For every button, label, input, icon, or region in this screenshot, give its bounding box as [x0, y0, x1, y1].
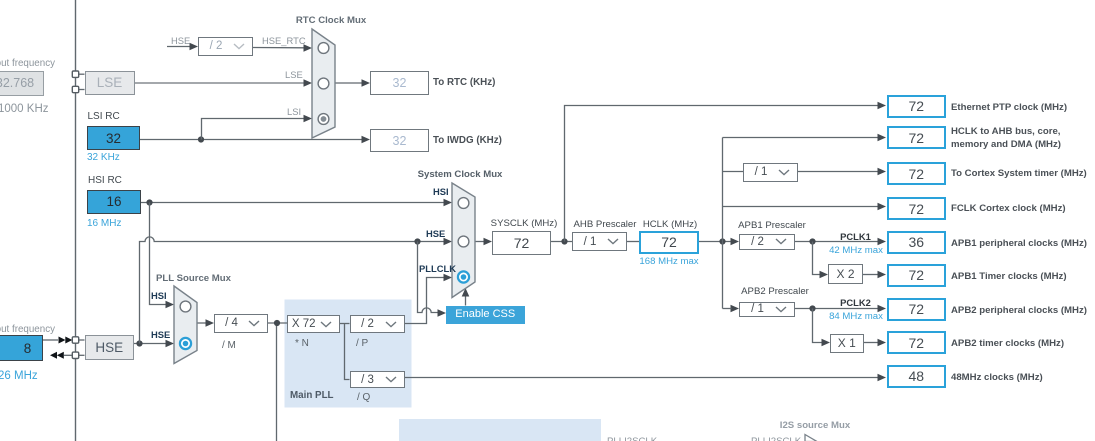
wire HSE drop to Enable CSS (hops over PLLCLK riser)	[418, 242, 447, 317]
label APB1 Timer clocks (MHz)	[951, 270, 1067, 284]
oscillator HSI RC 16	[87, 190, 141, 215]
dropdown PLL P divider /2	[350, 315, 405, 333]
wire LSI branch to RTC mux	[202, 115, 313, 140]
wire LSE to RTC mux	[134, 79, 312, 87]
panel Main PLL background	[285, 300, 412, 408]
label 16 MHz	[87, 217, 121, 231]
label input frequency (LSE, clipped)	[0, 57, 55, 71]
label Main PLL title	[290, 389, 334, 403]
dropdown /M divider /4	[214, 314, 268, 333]
label HCLK to AHB bus, core, memory and DMA (MHz)	[951, 125, 1061, 152]
output box FCLK Cortex 72	[887, 197, 947, 220]
dropdown /2 RTC HSE divider	[198, 37, 253, 56]
wire trunk to APB2 prescaler	[731, 305, 740, 313]
output box APB2 peripheral 72	[887, 298, 947, 322]
label PCLK2	[833, 296, 878, 310]
wire N multiplier to /P and /Q dividers	[340, 324, 350, 380]
wire APB1 branch to X2 multiplier	[813, 242, 829, 279]
output box HCLK to AHB 72	[887, 126, 947, 149]
wire LSI RC to IWDG box	[140, 136, 370, 144]
button Enable CSS	[446, 306, 525, 324]
label SYSCLK (MHz)	[489, 217, 559, 231]
wire HSE_RTC from /2 divider to RTC mux	[253, 44, 312, 52]
wire Enable CSS up-arrow into mux	[462, 288, 470, 306]
wire AHB prescaler to HCLK box	[627, 241, 639, 243]
label HSE (PLL mux input)	[151, 328, 170, 342]
dropdown PLL Q divider /3	[350, 371, 405, 388]
wire HSE stub to /2 RTC divider	[167, 43, 198, 51]
output box To IWDG 32	[370, 129, 429, 152]
wire RTC mux output to To-RTC box	[335, 79, 370, 87]
wire HCLK box to APB1 prescaler	[699, 238, 739, 246]
label HCLK (MHz)	[635, 218, 705, 232]
wire APB2 prescaler to PCLK2 output	[795, 305, 886, 313]
label 26 MHz	[0, 370, 38, 384]
wire HSE riser to System Clock Mux (hops over HSI riser)	[140, 237, 453, 344]
wire SYSCLK box to AHB prescaler	[551, 238, 572, 244]
wire /M divider to PLL N multiplier	[268, 320, 287, 326]
label PCLK1	[833, 230, 878, 244]
input box HSE frequency 8	[0, 335, 43, 361]
wire APB2 branch to X1 multiplier	[813, 309, 831, 347]
input box LSE frequency 32.768	[0, 71, 44, 96]
mux System Clock Mux	[452, 183, 475, 298]
wire System Clock Mux output to SYSCLK box	[475, 238, 492, 246]
label 32 KHz	[87, 151, 120, 165]
label To IWDG (KHz)	[433, 134, 502, 148]
output box 48MHz clocks 48	[887, 365, 947, 389]
node LSE OSC_IN pin square	[72, 71, 84, 77]
wire PLL Source Mux output to /M divider	[197, 319, 214, 327]
node HSE OSC_IN pin square with input arrows	[43, 337, 85, 344]
label 1000 KHz	[0, 103, 49, 117]
wire HSI branch down to PLL Source Mux	[150, 203, 175, 309]
label 48MHz clocks (MHz)	[951, 371, 1043, 385]
label RTC Clock Mux title	[291, 14, 371, 28]
label HSE_RTC	[262, 34, 306, 48]
label 42 MHz max	[826, 244, 886, 258]
label PLLI2SCLK (left, clipped)	[607, 435, 657, 441]
wire SYSCLK riser to Ethernet PTP output	[565, 102, 887, 242]
wire X1 to APB2 timer output	[863, 339, 886, 347]
label APB2 Prescaler	[737, 285, 813, 299]
label 168 MHz max	[634, 255, 704, 269]
node HSE OSC_OUT pin square with output arrows	[50, 352, 85, 359]
label LSE (mux input)	[285, 68, 303, 82]
dropdown AHB prescaler /1	[572, 232, 627, 251]
multiplier X1 box	[830, 334, 864, 354]
oscillator LSI RC 32	[87, 126, 140, 150]
label PLLCLK (sys mux input)	[419, 262, 456, 276]
value box HCLK 72	[639, 231, 699, 255]
label HSI (sys mux input)	[433, 185, 449, 199]
label APB2 timer clocks (MHz)	[951, 337, 1064, 351]
label / P	[356, 337, 368, 351]
wire Cortex divider to output box	[798, 168, 886, 176]
wire HSE box to PLL Source Mux	[134, 340, 174, 348]
label To RTC (KHz)	[433, 76, 495, 90]
output box APB2 timer 72	[887, 331, 947, 354]
wire trunk to HCLK-AHB output	[723, 134, 887, 142]
oscillator LSE	[85, 71, 135, 96]
label PLLI2SCLK (right, clipped)	[751, 435, 801, 441]
label input frequency (HSE, clipped)	[0, 323, 55, 337]
label HSI (PLL mux input)	[151, 289, 167, 303]
dropdown APB1 prescaler /2	[739, 234, 795, 251]
oscillator HSE	[85, 335, 135, 360]
wire X2 to APB1 timer output	[863, 271, 886, 279]
wire PLLQ to 48MHz output	[405, 374, 887, 382]
wire PLLM output down-rail vertical	[276, 323, 278, 441]
label / M	[222, 339, 236, 353]
wire HSI RC to System Clock Mux	[141, 199, 452, 207]
dropdown Cortex timer divider /1	[743, 163, 798, 182]
label System Clock Mux title	[415, 168, 505, 182]
label HSE (sys mux input)	[426, 227, 445, 241]
wire trunk to FCLK output	[723, 203, 887, 211]
mux RTC Clock Mux	[312, 29, 335, 138]
output box To Cortex System timer 72	[887, 162, 947, 185]
wire left rail vertical	[75, 0, 77, 441]
mux I2S source mux top corner (clipped at bottom)	[805, 435, 817, 441]
label LSI RC	[88, 110, 120, 124]
label FCLK Cortex clock (MHz)	[951, 202, 1066, 216]
label / Q	[357, 391, 370, 405]
value box SYSCLK 72	[492, 231, 551, 255]
label PLL Source Mux title	[156, 272, 238, 286]
label To Cortex System timer (MHz)	[951, 167, 1087, 181]
output box To RTC 32	[370, 71, 429, 95]
multiplier X2 box	[828, 264, 863, 284]
label AHB Prescaler	[570, 218, 640, 232]
label LSI (mux input)	[287, 105, 301, 119]
label APB1 Prescaler	[734, 219, 810, 233]
dropdown APB2 prescaler /1	[739, 302, 795, 318]
output box Ethernet PTP 72	[887, 95, 947, 118]
wire APB1 prescaler to PCLK1 output	[795, 238, 886, 246]
panel PLLI2S background (bottom, clipped)	[399, 419, 601, 441]
node LSE OSC_OUT pin square	[72, 86, 84, 92]
label HSE (RTC stub)	[171, 34, 190, 48]
output box APB1 peripheral 36	[887, 231, 947, 255]
label HSI RC	[88, 174, 122, 188]
label APB2 peripheral clocks (MHz)	[951, 304, 1087, 318]
dropdown PLL N multiplier X 72	[287, 315, 340, 333]
wire HCLK trunk vertical	[722, 138, 724, 309]
label I2S source Mux title	[773, 419, 857, 433]
label 84 MHz max	[826, 310, 886, 324]
wire PLLP output riser to System Clock Mux PLLCLK input	[405, 274, 453, 324]
label APB1 peripheral clocks (MHz)	[951, 237, 1087, 251]
output box APB1 timer 72	[887, 264, 947, 287]
label * N	[295, 337, 309, 351]
wire trunk to Cortex timer divider	[723, 171, 744, 173]
label Ethernet PTP clock (MHz)	[951, 101, 1067, 115]
mux PLL Source Mux	[174, 286, 197, 364]
